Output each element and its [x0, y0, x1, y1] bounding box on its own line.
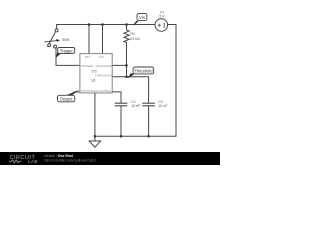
svg-text:OUTPUT: OUTPUT [81, 89, 92, 93]
svg-text:U1: U1 [91, 78, 95, 82]
svg-text:555: 555 [91, 70, 97, 74]
svg-text:CONTROL: CONTROL [98, 89, 112, 93]
svg-text:5 V: 5 V [159, 15, 165, 19]
svg-text:SW5: SW5 [62, 38, 69, 42]
svg-text:Vin: Vin [139, 15, 146, 20]
svg-text:R1: R1 [130, 32, 135, 36]
svg-text:THRESHOLD: THRESHOLD [95, 74, 112, 78]
svg-text:RST: RST [85, 55, 91, 59]
svg-text:10 nF: 10 nF [158, 104, 168, 108]
svg-text:TRIGGER: TRIGGER [81, 64, 93, 68]
svg-text:LAB: LAB [28, 159, 38, 164]
svg-text:DISCHARGE: DISCHARGE [96, 64, 112, 68]
svg-text:91 kΩ: 91 kΩ [130, 37, 140, 41]
svg-text:Output: Output [60, 97, 74, 102]
svg-text:Threshold: Threshold [134, 68, 153, 73]
svg-text:http://circuitlab.com/c/p3kzw4: http://circuitlab.com/c/p3kzw47a5c2 [44, 158, 96, 162]
svg-text:10 nF: 10 nF [131, 104, 141, 108]
svg-text:VCC: VCC [99, 55, 105, 59]
svg-text:GND: GND [92, 89, 98, 93]
svg-text:Trigger: Trigger [60, 48, 73, 53]
